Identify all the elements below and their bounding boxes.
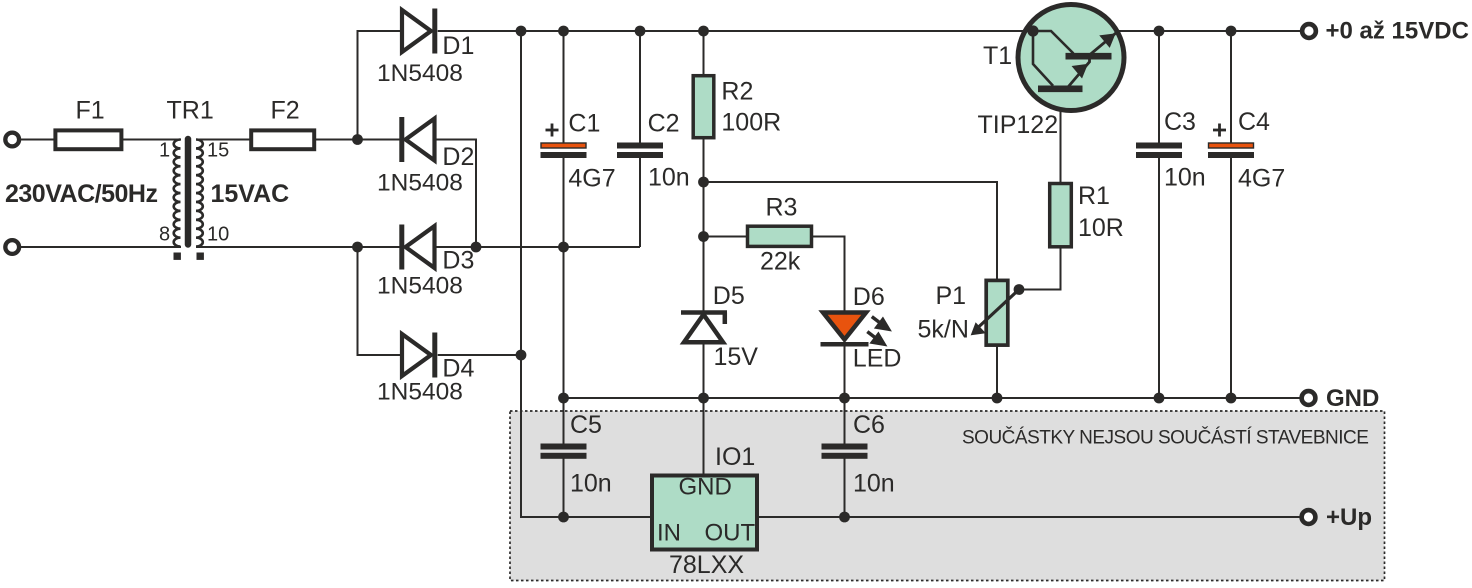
diode D2 <box>402 117 435 162</box>
wire C4 bottom lead to GND rail <box>1230 158 1232 399</box>
junction GND rail at C4 <box>1226 393 1237 404</box>
junction raw+ rail at R2 <box>698 26 709 37</box>
junction raw+ rail at x521 <box>516 26 527 37</box>
junction node minus at C1 <box>558 242 569 253</box>
wire node B to P1 top <box>704 182 998 280</box>
svg-text:15VAC: 15VAC <box>211 180 290 208</box>
svg-text:GND: GND <box>679 474 732 501</box>
capacitor C6 top plate <box>822 444 868 450</box>
svg-text:OUT: OUT <box>705 520 756 547</box>
svg-text:230VAC/50Hz: 230VAC/50Hz <box>5 180 157 208</box>
junction output rail at C4 <box>1226 26 1237 37</box>
fuse F1 <box>55 130 121 149</box>
wire AC neutral: terminal to TR1 primary bottom (pin 8) <box>19 246 181 248</box>
fuse F2 <box>251 130 314 149</box>
svg-text:F1: F1 <box>76 97 105 125</box>
diode D4 <box>402 333 435 378</box>
wire P1 bottom lead to GND rail <box>996 345 998 398</box>
wire IO1 GND pin lead <box>703 398 705 476</box>
transformer TR1 core <box>185 139 192 245</box>
transistor T1 emitter with arrow to output <box>1090 31 1119 55</box>
capacitor C1 negative plate <box>541 152 587 158</box>
note box: components not part of kit <box>510 411 1385 581</box>
svg-text:TR1: TR1 <box>167 97 214 125</box>
wire D2 anode down to node minus <box>435 140 477 248</box>
capacitor C3 bottom plate <box>1136 152 1182 158</box>
capacitor C1 plus sign <box>546 124 559 137</box>
svg-text:100R: 100R <box>721 109 781 137</box>
resistor R1 <box>1050 184 1072 247</box>
junction +Up rail at C5 <box>558 512 569 523</box>
wire C6 top lead from GND rail <box>844 398 846 444</box>
transformer TR1 polarity dot left <box>174 253 181 260</box>
junction node minus at D2 drop <box>471 242 482 253</box>
svg-text:+0 až 15VDC: +0 až 15VDC <box>1326 18 1469 45</box>
svg-text:15: 15 <box>207 140 229 162</box>
capacitor C4 positive plate (orange) <box>1209 143 1254 148</box>
junction P1 wiper <box>1014 284 1025 295</box>
svg-text:C6: C6 <box>853 411 885 439</box>
resistor R3 <box>748 226 812 246</box>
svg-text:C4: C4 <box>1238 108 1270 136</box>
junction node AC1 <box>352 134 363 145</box>
capacitor C5 top plate <box>541 444 587 450</box>
svg-text:10: 10 <box>207 224 229 246</box>
junction GND rail at P1 <box>992 393 1003 404</box>
svg-text:GND: GND <box>1326 385 1379 412</box>
wire node AC2 down to D4 anode <box>358 247 403 355</box>
svg-text:22k: 22k <box>760 248 801 276</box>
svg-text:10n: 10n <box>1164 164 1206 192</box>
wire F2 to node AC1 <box>314 139 357 141</box>
svg-text:T1: T1 <box>983 42 1012 70</box>
wire D1 cathode to raw+ rail and T1 base dot <box>438 30 1033 32</box>
wire D6 cathode to GND rail <box>844 340 846 398</box>
svg-text:IO1: IO1 <box>715 443 755 471</box>
wire C1 top lead <box>563 31 565 143</box>
svg-text:F2: F2 <box>271 97 300 125</box>
svg-text:R2: R2 <box>721 78 753 106</box>
wire R2 bottom lead to node B <box>703 138 705 237</box>
potentiometer P1 <box>986 280 1008 345</box>
junction raw+ rail at C1 <box>558 26 569 37</box>
wire AC live: terminal to F1 <box>19 139 55 141</box>
svg-text:1N5408: 1N5408 <box>377 379 463 406</box>
terminal AC input top <box>5 133 19 147</box>
capacitor C2 top plate <box>617 143 663 149</box>
junction GND rail at D6/C6 <box>839 393 850 404</box>
wire +Up rail from IO1 OUT to terminal <box>759 516 1301 518</box>
wire C3 top lead <box>1158 31 1160 143</box>
svg-text:1N5408: 1N5408 <box>377 273 463 300</box>
junction raw+ rail at C2 <box>635 26 646 37</box>
wire R2 top lead <box>703 31 705 76</box>
svg-text:D6: D6 <box>853 283 885 311</box>
wire C5 bottom lead to +Up rail <box>563 458 565 517</box>
capacitor C1 positive plate (orange) <box>541 143 586 148</box>
svg-text:78LXX: 78LXX <box>669 551 744 579</box>
svg-text:4G7: 4G7 <box>1238 165 1285 193</box>
svg-text:C1: C1 <box>568 110 600 138</box>
svg-text:4G7: 4G7 <box>568 165 615 193</box>
transistor T1 collector entry wire <box>1033 31 1074 54</box>
junction node B lower (R3 feed) <box>698 231 709 242</box>
transformer TR1 primary winding <box>174 140 181 247</box>
svg-text:D2: D2 <box>442 143 474 171</box>
LED D6 emission arrow upper <box>872 317 889 330</box>
wire T1 emitter to output rail <box>1116 30 1301 32</box>
LED D6 emission arrow lower <box>867 332 884 345</box>
svg-text:1: 1 <box>159 140 170 162</box>
junction GND rail at D5/IO1 <box>698 393 709 404</box>
svg-text:R1: R1 <box>1078 182 1110 210</box>
wire node AC2 to D3 cathode <box>358 246 403 248</box>
capacitor C2 bottom plate <box>617 152 663 158</box>
diode D3 <box>402 225 435 270</box>
wire D3 anode to C1/C2 leads (node minus) <box>435 246 641 248</box>
transistor T1 body circle <box>1018 5 1124 111</box>
LED D6 <box>821 313 869 345</box>
capacitor C3 top plate <box>1136 143 1182 149</box>
svg-text:D5: D5 <box>713 282 745 310</box>
terminal AC input bottom <box>5 240 19 254</box>
resistor R2 <box>693 76 714 138</box>
diode D1 <box>402 9 435 54</box>
junction output rail at C3 <box>1154 26 1165 37</box>
zener diode D5 <box>681 313 727 343</box>
wire R3 right to D6 anode <box>811 237 844 342</box>
svg-text:10R: 10R <box>1078 214 1124 242</box>
transformer TR1 polarity dot right <box>197 253 204 260</box>
svg-text:IN: IN <box>657 520 681 547</box>
svg-text:P1: P1 <box>936 282 967 310</box>
capacitor C4 negative plate <box>1208 152 1254 158</box>
wire node B to R3 left <box>704 236 748 238</box>
wire F1 to TR1 primary top (pin 1) <box>121 139 181 141</box>
svg-text:8: 8 <box>159 224 170 246</box>
junction D4 cathode <box>516 350 527 361</box>
junction node B upper (P1 feed) <box>698 177 709 188</box>
regulator IO1 box <box>652 476 757 550</box>
svg-text:10n: 10n <box>853 470 895 498</box>
transistor T1 base dot <box>1027 25 1038 36</box>
junction node AC2 <box>352 242 363 253</box>
wire raw+ vertical x521 rail to +Up feed <box>521 31 650 517</box>
wire node AC1 up to D1 anode <box>358 31 403 140</box>
svg-text:C2: C2 <box>648 110 680 138</box>
wire P1 wiper to R1 bottom <box>1019 247 1061 290</box>
transistor T1 first bar <box>1066 53 1112 60</box>
wire node B down through D5 to GND rail <box>703 237 705 399</box>
terminal +Up <box>1302 510 1316 524</box>
capacitor C5 bottom plate <box>541 453 587 459</box>
potentiometer P1 wiper arrow <box>972 290 1019 335</box>
wire C4 top lead <box>1230 31 1232 143</box>
terminal GND <box>1302 391 1316 405</box>
junction +Up rail at C6 <box>839 512 850 523</box>
wire node AC1 to D2 cathode <box>358 139 403 141</box>
svg-text:SOUČÁSTKY NEJSOU SOUČÁSTÍ STAV: SOUČÁSTKY NEJSOU SOUČÁSTÍ STAVEBNICE <box>962 427 1368 449</box>
transformer TR1 secondary winding <box>196 140 203 247</box>
svg-text:+Up: +Up <box>1326 504 1372 531</box>
transistor T1 inner emitter with arrow <box>1068 58 1090 87</box>
svg-text:10n: 10n <box>570 470 612 498</box>
svg-text:TIP122: TIP122 <box>978 111 1059 139</box>
svg-text:D3: D3 <box>442 247 474 275</box>
svg-text:C3: C3 <box>1164 108 1196 136</box>
wire GND rail <box>564 397 1302 399</box>
svg-text:C5: C5 <box>570 411 602 439</box>
wire TR1 secondary bottom (pin 10) to node AC2 <box>196 246 358 248</box>
svg-text:LED: LED <box>853 345 902 373</box>
svg-text:15V: 15V <box>714 343 759 371</box>
svg-text:1N5408: 1N5408 <box>377 60 463 87</box>
wire D4 cathode to raw+ drop <box>438 354 521 356</box>
terminal +0 az 15VDC <box>1302 24 1316 38</box>
wire C3 bottom lead to GND rail <box>1158 158 1160 399</box>
capacitor C4 plus sign <box>1213 124 1226 137</box>
svg-text:R3: R3 <box>766 194 798 222</box>
transistor T1 base branch down <box>1033 31 1053 86</box>
transistor T1 second bar <box>1038 86 1083 93</box>
wire C2 top lead <box>639 31 641 143</box>
wire TR1 secondary top (pin 15) to F2 <box>196 139 251 141</box>
junction GND rail at C3 <box>1154 393 1165 404</box>
wire C1 bottom lead through node minus to GND rail and C5 <box>563 158 565 445</box>
svg-text:10n: 10n <box>648 164 690 192</box>
wire C2 bottom lead to node minus <box>639 158 641 248</box>
wire R1 top lead to T1 <box>1060 92 1062 184</box>
capacitor C6 bottom plate <box>822 453 868 459</box>
svg-text:1N5408: 1N5408 <box>377 170 463 197</box>
junction GND rail at C1/C5 <box>558 393 569 404</box>
svg-text:D1: D1 <box>442 32 474 60</box>
wire C6 bottom lead to +Up rail <box>844 458 846 517</box>
svg-text:5k/N: 5k/N <box>918 316 969 344</box>
